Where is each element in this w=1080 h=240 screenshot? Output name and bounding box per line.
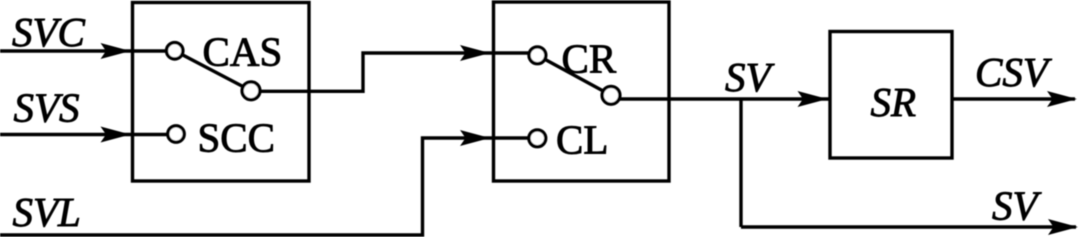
- svg-text:CL: CL: [556, 117, 608, 163]
- arrowhead SVS into box1: [101, 127, 131, 143]
- svg-text:SVL: SVL: [13, 189, 81, 235]
- svg-text:CAS: CAS: [203, 29, 283, 75]
- box switch1 (CAS/SCC selector): [133, 3, 310, 182]
- arrowhead into box2 CR: [460, 45, 490, 61]
- svg-text:SV: SV: [725, 54, 775, 100]
- contact circle CL: [529, 130, 546, 147]
- wire SVL input (bottom, up, into CL): [0, 138, 529, 235]
- box switch2 (CR/CL selector): [494, 2, 670, 181]
- svg-text:SCC: SCC: [198, 115, 276, 161]
- wire switch1 output to switch2 CR input: [251, 53, 529, 91]
- arrowhead SVL into box2 CL: [460, 130, 490, 146]
- svg-text:SVS: SVS: [14, 85, 80, 131]
- svg-text:CR: CR: [562, 36, 617, 82]
- wire switch2 output to SR input (SV): [611, 97, 829, 100]
- arrowhead SV into SR: [798, 91, 828, 107]
- arrowhead SV bottom output: [1048, 219, 1078, 235]
- wire SVS input: [0, 133, 168, 136]
- arrowhead CSV output: [1047, 91, 1077, 107]
- svg-text:SVC: SVC: [12, 9, 86, 55]
- svg-text:SR: SR: [871, 79, 917, 125]
- wire SVC input: [0, 49, 166, 52]
- box SR: [830, 32, 952, 159]
- svg-text:SV: SV: [992, 183, 1042, 229]
- switch1 arm (CAS to common): [175, 51, 251, 91]
- wire SV bottom output: [741, 225, 1076, 228]
- switch2 arm (CR to common): [537, 55, 611, 95]
- arrowhead SVC into box1: [101, 43, 131, 59]
- contact circle CAS: [167, 43, 183, 59]
- common contact circle switch1: [242, 82, 260, 100]
- contact circle CR: [529, 47, 546, 64]
- svg-text:CSV: CSV: [975, 49, 1052, 95]
- wire SV branch down: [739, 99, 742, 227]
- wire CSV output: [954, 97, 1076, 100]
- contact circle SCC: [168, 126, 184, 142]
- common contact circle switch2: [602, 86, 620, 104]
